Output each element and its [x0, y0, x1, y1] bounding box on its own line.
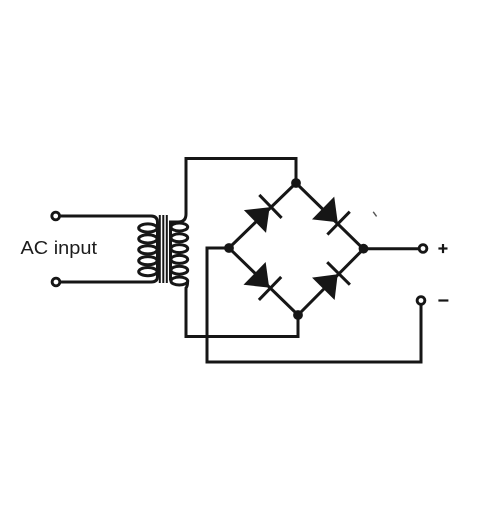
node: bridge left junction [224, 243, 234, 253]
AC input terminal top (open circle) [52, 212, 60, 220]
node: bridge bottom junction [293, 310, 303, 320]
wire: bottom AC terminal to transformer primary [61, 281, 151, 284]
minus output terminal (open circle) [417, 297, 425, 305]
node: bridge right junction [359, 244, 369, 254]
transformer T1 core (three vertical lines) [160, 215, 167, 283]
diode D3 (left node to bottom node) [243, 262, 281, 300]
wire: secondary top to bridge top node [186, 159, 296, 215]
wire: top AC terminal to transformer primary [61, 215, 151, 218]
transformer T1 primary winding [139, 216, 158, 282]
label: plus sign [438, 244, 447, 253]
wire: secondary bottom to bridge bottom node [186, 282, 298, 337]
wire: bridge diamond sides [229, 183, 364, 315]
wire: bridge right node to plus terminal [364, 247, 419, 250]
node: bridge top junction [291, 178, 301, 188]
svg-text:AC input: AC input [21, 237, 98, 258]
stray mark artifact [373, 212, 376, 217]
plus output terminal (open circle) [419, 245, 427, 253]
transformer T1 secondary winding [171, 214, 188, 285]
diode D4 (bottom node to right node) [312, 262, 350, 300]
wire: bridge left node to minus output [207, 248, 421, 362]
diode D2 (top node to right node) [312, 197, 350, 235]
label: minus sign [438, 299, 448, 301]
AC input terminal bottom (open circle) [52, 278, 60, 286]
diode D1 (left node to top node) [244, 195, 282, 233]
